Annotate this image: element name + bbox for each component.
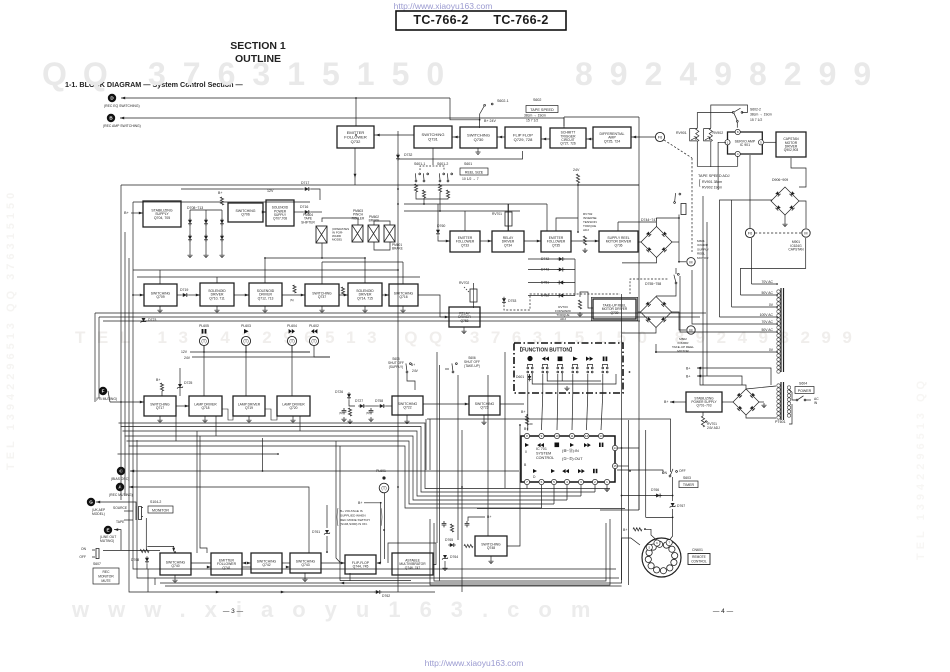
svg-text:70V AC: 70V AC bbox=[762, 280, 774, 284]
arrow into q733 bbox=[446, 240, 450, 243]
node B (REC AMP SWITCHING) bbox=[107, 114, 115, 122]
transformer PT601 core bbox=[780, 288, 782, 372]
switch supply actuator bbox=[681, 204, 686, 215]
junction supply sw bbox=[678, 217, 680, 219]
node E (LINE OUT MUTING) bbox=[104, 526, 112, 534]
wire frame drop2 bbox=[124, 455, 126, 496]
ground cap1 bbox=[341, 417, 346, 422]
svg-text:RV901 38cm: RV901 38cm bbox=[702, 180, 722, 184]
diode D753 bbox=[502, 297, 506, 305]
lamp PL603 bbox=[241, 336, 250, 345]
connector M capstan bbox=[802, 229, 810, 237]
wire s104 down bbox=[145, 518, 147, 550]
switch S602-2 bbox=[732, 108, 743, 113]
diode string 1 lower bbox=[188, 234, 192, 242]
svg-text:S603: S603 bbox=[683, 476, 691, 480]
flip flop Q744 745 bbox=[345, 555, 376, 574]
svg-text:IC 701: IC 701 bbox=[536, 447, 547, 451]
wire q732 up bbox=[355, 98, 357, 126]
diode D751 bbox=[557, 281, 565, 285]
wire q718 lamp bbox=[203, 346, 205, 396]
function button symbol rew bbox=[542, 357, 549, 361]
wire capstan taps bbox=[720, 200, 773, 317]
svg-text:MONITOR: MONITOR bbox=[152, 508, 169, 512]
arrow bottom bus2 bbox=[281, 591, 285, 594]
arrow q706 out bbox=[262, 211, 266, 214]
arrow bottom bus1 bbox=[216, 591, 220, 594]
label M602 take-up reel motor bbox=[672, 337, 694, 353]
svg-text:D708~713: D708~713 bbox=[187, 206, 203, 210]
arrow into q737 bbox=[301, 294, 305, 297]
junction dots assorted bbox=[355, 134, 357, 136]
resistor q748 2 bbox=[464, 544, 473, 547]
wire q739 bridge bbox=[638, 311, 641, 313]
wire vert x439 bbox=[439, 365, 441, 581]
wire bus short bbox=[118, 453, 279, 455]
svg-text:D906~909: D906~909 bbox=[772, 178, 788, 182]
wire s602-2 loop bbox=[711, 105, 748, 128]
wire cn601 pin6 b+ bbox=[644, 529, 657, 540]
svg-text:RV701: RV701 bbox=[492, 212, 502, 216]
svg-text:Q743: Q743 bbox=[301, 563, 309, 567]
resistor q737 in bbox=[293, 285, 296, 293]
wire y510 stub bbox=[600, 509, 639, 511]
svg-text:(T): (T) bbox=[243, 339, 249, 344]
svg-text:S104-2: S104-2 bbox=[150, 500, 161, 504]
ground diode string 3 bbox=[219, 253, 224, 258]
svg-text:D761: D761 bbox=[312, 530, 320, 534]
wire b+ q723 drop bbox=[526, 414, 528, 416]
svg-text:TAPE: TAPE bbox=[116, 520, 125, 524]
wire nested bottom-left corners bbox=[129, 450, 148, 592]
wire lamp 602 down bbox=[314, 346, 330, 357]
wire q717 drop bbox=[175, 416, 177, 441]
wire bottom 580 bbox=[340, 580, 411, 582]
wire bridge ps left bbox=[722, 401, 733, 403]
wire supply switch down bbox=[678, 215, 680, 262]
wire d727 d758 bbox=[366, 405, 378, 407]
pin 4 servo bbox=[735, 151, 740, 156]
diode bridge D906~909 bbox=[771, 187, 799, 215]
wire bridge takeup M bbox=[672, 312, 687, 330]
svg-text:Q736: Q736 bbox=[614, 243, 622, 247]
junction bus short bbox=[277, 453, 279, 455]
lamp driver Q720 bbox=[277, 396, 310, 416]
arrow into q758 bbox=[445, 316, 449, 319]
svg-text:Q748: Q748 bbox=[487, 546, 495, 550]
svg-text:13: 13 bbox=[599, 434, 603, 438]
wire button 2 down bbox=[542, 374, 544, 393]
resistor cn601 b+ bbox=[633, 528, 642, 531]
pot RV902 bracket bbox=[704, 129, 711, 141]
arrow q740 top bbox=[172, 548, 175, 552]
resistor q716 in bbox=[341, 287, 344, 295]
svg-text:Q727, 726: Q727, 726 bbox=[560, 142, 576, 146]
switch S601-2 a bbox=[436, 171, 445, 182]
wire rv702 up bbox=[473, 283, 475, 289]
wire d760 q733 bbox=[438, 236, 450, 241]
wire bottom bus 569 bbox=[150, 568, 616, 570]
push switch stop bbox=[557, 365, 563, 373]
label PM603 bbox=[352, 209, 365, 220]
wire bus mid 5 bbox=[127, 441, 555, 504]
svg-text:S601-1: S601-1 bbox=[414, 162, 425, 166]
solenoid power supply Q707 708 bbox=[266, 200, 294, 226]
stabilizing power supply Q701~703 bbox=[686, 392, 722, 412]
svg-text:Q704, 705: Q704, 705 bbox=[154, 216, 170, 220]
ground cap2 bbox=[368, 417, 373, 422]
svg-text:CAPSTAN: CAPSTAN bbox=[788, 248, 804, 252]
arrow into flipflop bbox=[542, 138, 546, 141]
wire servo capstan bbox=[764, 141, 776, 143]
switching Q709 bbox=[144, 284, 177, 306]
push switch rec bbox=[527, 365, 533, 373]
svg-text:F6: F6 bbox=[658, 136, 662, 140]
svg-text:PL605: PL605 bbox=[199, 324, 209, 328]
boxed label REEL SIZE bbox=[460, 168, 488, 175]
svg-text:http://www.xiaoyu163.com: http://www.xiaoyu163.com bbox=[425, 658, 524, 668]
wire left frame 3 bbox=[128, 258, 130, 450]
svg-text:D762: D762 bbox=[382, 594, 390, 598]
symbol PL605 bbox=[202, 329, 207, 334]
svg-text:(S): (S) bbox=[339, 411, 343, 415]
wire q735 up bbox=[556, 218, 578, 231]
arrow into diff amp bbox=[632, 136, 636, 139]
wire flipflop down bbox=[398, 151, 523, 159]
wire q733 up bbox=[464, 211, 466, 231]
svg-text:D767: D767 bbox=[677, 504, 685, 508]
wire rv702 dash bbox=[464, 287, 470, 293]
svg-text:(T): (T) bbox=[289, 339, 295, 344]
switch S602-1 bbox=[480, 103, 493, 113]
svg-text:(①~⑦):OUT: (①~⑦):OUT bbox=[562, 457, 583, 461]
svg-text:(S): (S) bbox=[290, 298, 294, 302]
wire rv701 up bbox=[702, 412, 704, 416]
svg-text:Q701~703: Q701~703 bbox=[697, 404, 712, 408]
wire capstan down bbox=[791, 158, 806, 187]
wire bus 317 bbox=[99, 316, 700, 318]
wire row links 258 bbox=[265, 257, 365, 259]
ground q730 bbox=[475, 148, 480, 154]
svg-text:0V: 0V bbox=[769, 348, 774, 352]
wire D742 bbox=[528, 258, 575, 260]
arrow into C bbox=[130, 470, 134, 473]
wire q732 q731 bbox=[374, 134, 414, 136]
node A (REC MUTING) bbox=[116, 483, 124, 491]
svg-text:(BIAS OSC): (BIAS OSC) bbox=[111, 477, 129, 481]
symbol PL604 bbox=[289, 329, 295, 334]
pin 1 servo bbox=[725, 140, 730, 145]
wire d601 drop bbox=[529, 374, 531, 376]
svg-text:M: M bbox=[689, 260, 692, 264]
switch S601-1 a bbox=[412, 171, 421, 182]
transformer PT601 secondary windings bbox=[777, 290, 780, 373]
wire button 4 down bbox=[572, 374, 574, 393]
wire vert x628 bbox=[628, 420, 630, 585]
svg-text:SHIFTER: SHIFTER bbox=[301, 220, 315, 224]
zener D725 bbox=[177, 384, 183, 389]
wire F6 schmitt bbox=[586, 138, 593, 140]
take-up reel motor driver Q739 bbox=[591, 297, 637, 320]
svg-text:PT601: PT601 bbox=[775, 420, 786, 424]
node D (REC EQ SWITCHING) bbox=[108, 94, 116, 102]
switching Q716 bbox=[389, 284, 418, 306]
wire pm604 down bbox=[321, 243, 323, 258]
boxed label REMOTE CONTROL bbox=[688, 554, 710, 565]
resistor ic701 b+ bbox=[529, 423, 532, 425]
wires buttons to ic701 bbox=[526, 393, 529, 430]
arrow into G bbox=[96, 501, 100, 504]
svg-text:B+: B+ bbox=[358, 501, 362, 505]
boxed label TAPE SPEED bbox=[526, 106, 558, 113]
label S602-2 bbox=[750, 108, 772, 122]
svg-text:10: 10 bbox=[555, 434, 559, 438]
wire bus mid 6 bbox=[129, 446, 542, 508]
wire s601 drop bbox=[423, 198, 425, 204]
svg-text:TC-766-2: TC-766-2 bbox=[493, 13, 548, 27]
svg-text:38cm → 19cm: 38cm → 19cm bbox=[524, 114, 546, 118]
svg-text:12V: 12V bbox=[267, 189, 274, 193]
wire b+ stab out bbox=[670, 401, 686, 403]
svg-text:Q735: Q735 bbox=[552, 243, 560, 247]
svg-text:Q741: Q741 bbox=[222, 566, 230, 570]
wire q714 q716 bbox=[382, 294, 389, 296]
svg-text:B+: B+ bbox=[411, 363, 415, 367]
label M901 capstan motor bbox=[788, 240, 804, 252]
switching Q743 bbox=[290, 553, 321, 573]
diode D719 bbox=[181, 293, 189, 297]
svg-text:RV902: RV902 bbox=[713, 131, 724, 135]
wire capstan bridge left bbox=[771, 200, 772, 201]
svg-text:Q733: Q733 bbox=[461, 243, 469, 247]
wire ac feeder 4 bbox=[720, 316, 777, 318]
wire bus mid 4 bbox=[125, 436, 568, 500]
diode D716 bbox=[303, 210, 311, 214]
wire bridge takeup bottom bbox=[622, 328, 656, 334]
svg-text:ADJ: ADJ bbox=[560, 317, 566, 321]
wire ac feeder 3 bbox=[732, 306, 776, 308]
switch S607 on off bbox=[92, 549, 99, 560]
wire 12v lamps bbox=[190, 351, 310, 353]
pin 3 ic701 bottom bbox=[578, 479, 583, 484]
svg-text:D744~747: D744~747 bbox=[641, 218, 657, 222]
switch supply reel speed bbox=[671, 191, 682, 204]
stabilizing supply Q704 705 bbox=[143, 201, 181, 227]
wire C line right bbox=[617, 470, 663, 474]
svg-text:100V AC: 100V AC bbox=[760, 313, 774, 317]
arrow into q730 bbox=[498, 136, 502, 139]
svg-text:Q718: Q718 bbox=[201, 406, 209, 410]
svg-text:D601: D601 bbox=[516, 375, 524, 379]
wire pot2 bottom bbox=[710, 142, 712, 168]
wire into q758 bbox=[440, 316, 449, 318]
svg-text:Q723: Q723 bbox=[480, 406, 488, 410]
svg-text:0V: 0V bbox=[769, 303, 774, 307]
svg-text:B+: B+ bbox=[623, 528, 627, 532]
arrow into B bbox=[120, 117, 124, 120]
wire q717 q718 bbox=[176, 405, 189, 407]
wire 12v line bbox=[181, 188, 303, 190]
wire F6 capstan down bbox=[751, 238, 753, 284]
wire vert x488 bbox=[487, 375, 489, 536]
pin 11 ic701 bbox=[569, 433, 574, 438]
lamp PL605 bbox=[199, 336, 208, 345]
svg-text:50V AC: 50V AC bbox=[762, 291, 774, 295]
label RV703 forward torque adj bbox=[555, 305, 572, 321]
wire d761 down bbox=[326, 536, 328, 553]
wire ps top bbox=[700, 368, 746, 389]
svg-text:(S): (S) bbox=[366, 411, 370, 415]
pot RV701 mid box bbox=[505, 212, 512, 226]
svg-text:Q720: Q720 bbox=[289, 406, 297, 410]
diode string 2 upper bbox=[204, 218, 208, 226]
wire into q709 bbox=[133, 294, 144, 296]
wire vert x398 bbox=[397, 280, 399, 592]
svg-text:S601: S601 bbox=[464, 162, 472, 166]
svg-text:24V: 24V bbox=[184, 356, 191, 360]
svg-text:Q725, 724: Q725, 724 bbox=[604, 140, 620, 144]
wire vert x458 bbox=[457, 375, 459, 540]
svg-text:D766: D766 bbox=[651, 488, 659, 492]
wire s601 bus bbox=[404, 203, 547, 205]
switching Q723 bbox=[469, 396, 500, 415]
wire d727 chain bbox=[349, 400, 355, 406]
wire q717 b+ down bbox=[161, 391, 163, 396]
push switch rew bbox=[542, 365, 548, 373]
function button internal wires bbox=[532, 373, 616, 384]
diode bridge D755~758 bbox=[641, 297, 672, 328]
wire A line bbox=[129, 487, 309, 553]
wire rv703 to q739 bbox=[580, 292, 593, 308]
svg-text:PL603: PL603 bbox=[241, 324, 251, 328]
flip flop Q729 728 bbox=[505, 127, 541, 148]
capacitor s605 2 bbox=[369, 408, 374, 414]
svg-text:TEL 13942296513 QQ: TEL 13942296513 QQ bbox=[915, 377, 927, 560]
wire bus mid 3 bbox=[123, 431, 582, 496]
switching Q730 bbox=[460, 127, 497, 148]
junction s602 drop bbox=[479, 119, 481, 121]
wire vert x505 bbox=[504, 352, 506, 488]
wire lamp 604 down bbox=[292, 346, 310, 352]
arrow b+ right1 bbox=[697, 367, 701, 370]
boxed label TIMER bbox=[679, 481, 698, 488]
capacitor s605 1 bbox=[342, 408, 347, 414]
wire q719 lamp bbox=[245, 346, 247, 396]
wire q720 drop bbox=[299, 416, 301, 431]
wire diff to F6 bbox=[631, 136, 655, 138]
wire s601 dash top bbox=[420, 166, 444, 170]
pin 12 ic701 bbox=[584, 433, 589, 438]
resistor rv703 bbox=[578, 300, 581, 309]
ground ic701 pin1 bbox=[604, 487, 609, 492]
wire s604 left bbox=[792, 392, 796, 400]
wire bottom drop2 bbox=[154, 578, 156, 585]
wire button 1 down bbox=[527, 374, 529, 393]
wire bottom drop1 bbox=[147, 569, 149, 592]
svg-text:24V ADJ: 24V ADJ bbox=[707, 426, 720, 430]
svg-text:B+: B+ bbox=[521, 410, 525, 414]
junction feeder bbox=[655, 351, 657, 353]
svg-text:OFF: OFF bbox=[79, 555, 86, 559]
wire cn601 pin7 bbox=[670, 513, 673, 540]
switch S605 bbox=[403, 361, 412, 373]
wire q723 bus bbox=[427, 419, 671, 472]
label uk aep model bbox=[92, 508, 106, 516]
switching Q748 bbox=[475, 536, 507, 556]
svg-text:15: 15 bbox=[613, 464, 617, 468]
wire vert x520 bbox=[519, 425, 521, 519]
svg-text:REEL SIZE: REEL SIZE bbox=[465, 170, 484, 174]
svg-text:B+: B+ bbox=[664, 400, 668, 404]
wire q723 right bbox=[500, 403, 524, 405]
wire bridge ps right bbox=[759, 401, 764, 403]
arrow into A bbox=[129, 486, 133, 489]
resistor q723 b+ bbox=[525, 416, 528, 425]
wire q709 d719 bbox=[177, 294, 181, 296]
wire q737 drop bbox=[321, 262, 323, 284]
svg-text:D726: D726 bbox=[335, 390, 343, 394]
zener D723 bbox=[141, 318, 147, 323]
diode string 1 upper bbox=[188, 218, 192, 226]
label line out muting bbox=[100, 535, 116, 543]
wire pm601 down bbox=[374, 242, 390, 250]
wire from D bbox=[121, 97, 450, 99]
wire tape line bbox=[124, 519, 133, 521]
wire bus mid 1 bbox=[119, 423, 611, 489]
wire b+ right1 bbox=[697, 368, 771, 385]
wire source line bbox=[124, 510, 133, 512]
diode string 3 lower bbox=[220, 234, 224, 242]
pot RV701 bbox=[701, 416, 704, 427]
arrow into q723 bbox=[465, 403, 469, 406]
svg-text:Q734: Q734 bbox=[504, 243, 512, 247]
svg-text:376315150: 376315150 bbox=[148, 56, 461, 92]
wire bridge supply bottom bbox=[622, 258, 657, 263]
svg-text:S604: S604 bbox=[799, 382, 807, 386]
svg-text:892498299: 892498299 bbox=[575, 56, 888, 92]
svg-text:QQ: QQ bbox=[42, 56, 124, 92]
resistor rv702b bbox=[583, 236, 586, 245]
wire q744 q743 bbox=[321, 562, 345, 564]
arrow into q734 bbox=[488, 240, 492, 243]
pin 5 cn601 bbox=[646, 544, 652, 550]
wire q709 drop bbox=[159, 270, 161, 284]
label PM604 bbox=[301, 213, 315, 224]
label RV701 24V adj bbox=[707, 422, 720, 430]
wire left frame 2 bbox=[124, 232, 126, 455]
label PM602 bbox=[369, 215, 380, 223]
wire vert x437 bbox=[436, 352, 438, 543]
svg-text:Q731: Q731 bbox=[428, 137, 439, 142]
wire q706 q707 bbox=[263, 211, 266, 213]
ground diode string 1 bbox=[187, 253, 192, 258]
svg-text:IN: IN bbox=[814, 401, 818, 405]
wire C line bbox=[130, 470, 519, 472]
wire ps top right bbox=[746, 386, 776, 389]
wire pot1 bottom bbox=[697, 142, 737, 167]
svg-text:CONTROL: CONTROL bbox=[536, 456, 554, 460]
svg-text:70V AC: 70V AC bbox=[762, 320, 774, 324]
svg-text:50V AC: 50V AC bbox=[762, 328, 774, 332]
push switch ff bbox=[587, 365, 593, 373]
function button symbol play bbox=[573, 357, 578, 361]
wire power winding top bbox=[789, 390, 792, 392]
lamp PL602 bbox=[309, 336, 318, 345]
wire left frame 1 bbox=[120, 185, 122, 460]
wire bus drop A bbox=[94, 313, 96, 402]
wire ps bottom bbox=[746, 415, 776, 418]
lamp driver Q719 bbox=[233, 396, 265, 416]
